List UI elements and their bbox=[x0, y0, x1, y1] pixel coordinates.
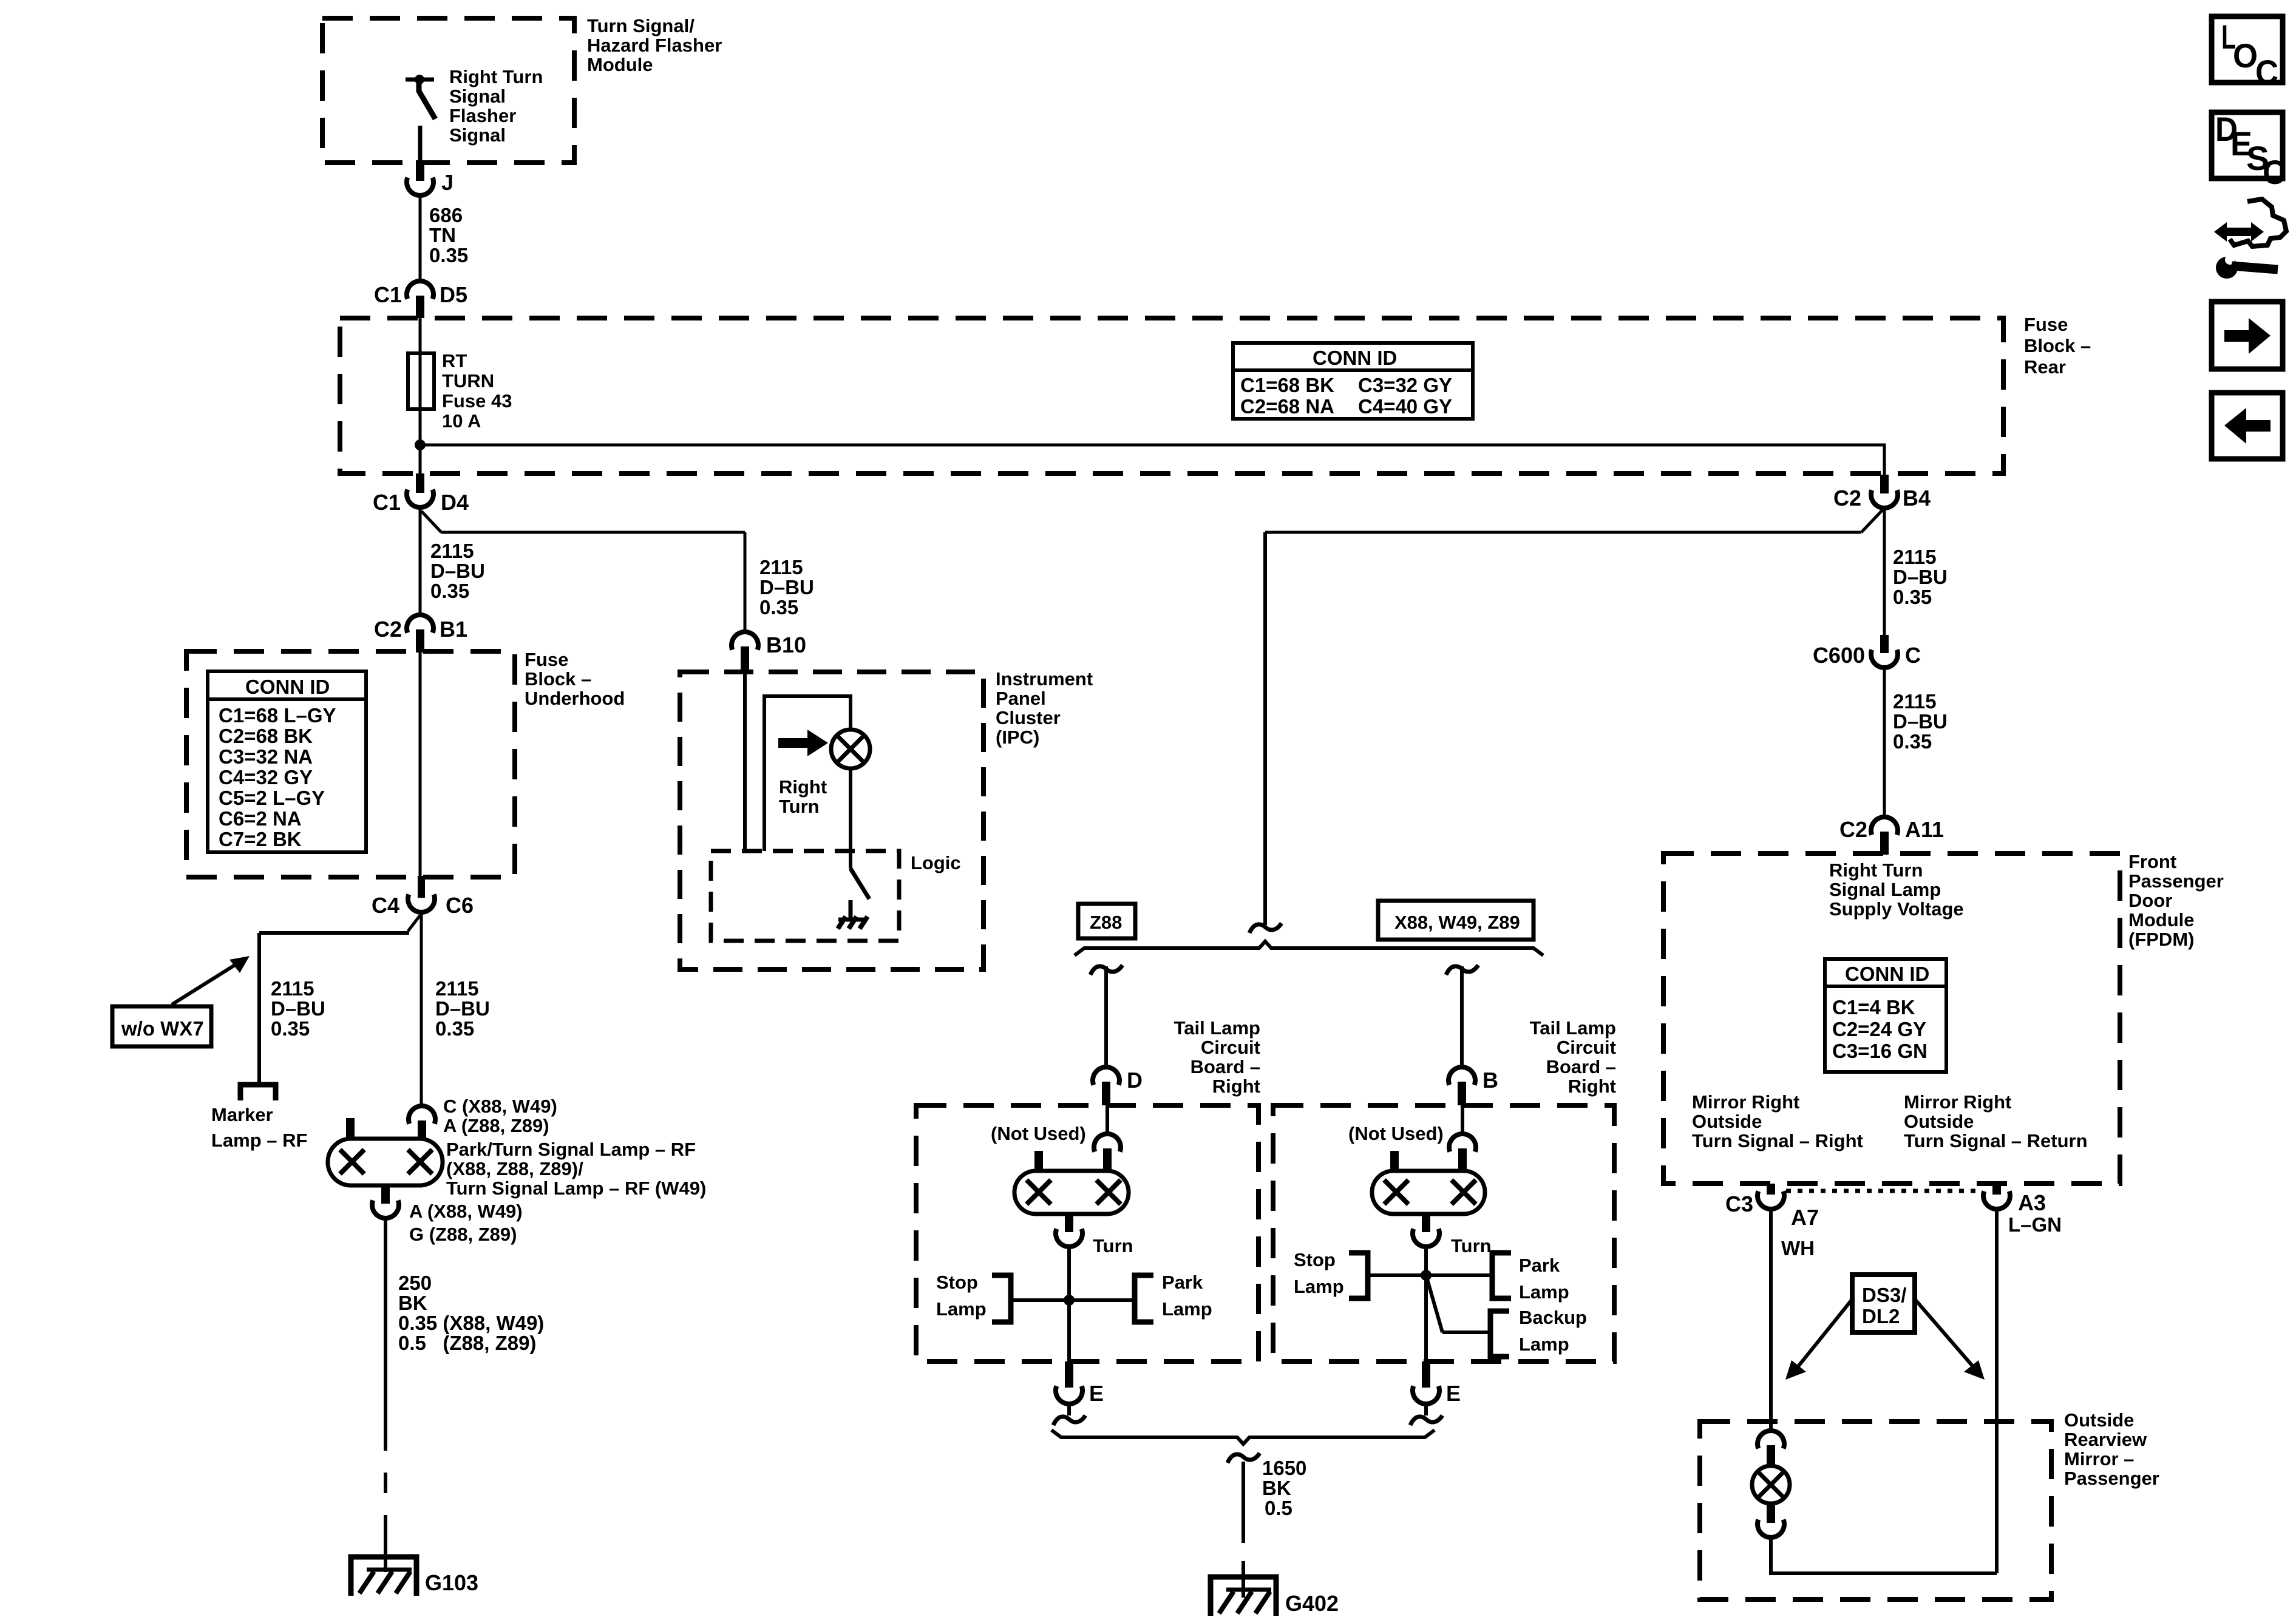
svg-text:C3=16 GN: C3=16 GN bbox=[1832, 1040, 1927, 1062]
Outside Rearview Mirror - Passenger box bbox=[1700, 1409, 2159, 1599]
DS3/DL2 callout box with arrows bbox=[1785, 1275, 1985, 1380]
wire 2115 D-BU 0.35 below C600 bbox=[1884, 668, 1948, 816]
logic chassis ground bbox=[838, 917, 868, 929]
svg-text:D–BU: D–BU bbox=[759, 576, 814, 598]
svg-text:G402: G402 bbox=[1285, 1591, 1339, 1616]
svg-text:Board –: Board – bbox=[1190, 1056, 1260, 1077]
dotted connector link A7-A3 bbox=[1786, 1189, 1982, 1193]
svg-text:686: 686 bbox=[429, 204, 463, 226]
svg-text:C4=32 GY: C4=32 GY bbox=[219, 766, 313, 788]
svg-text:C5=2 L–GY: C5=2 L–GY bbox=[219, 787, 325, 809]
icon DESC bbox=[2212, 110, 2286, 191]
svg-text:C: C bbox=[2255, 53, 2278, 91]
left board: Turn connector bbox=[1056, 1214, 1133, 1256]
svg-text:(FPDM): (FPDM) bbox=[2128, 929, 2194, 950]
svg-text:Underhood: Underhood bbox=[525, 688, 625, 709]
svg-text:Mirror Right: Mirror Right bbox=[1904, 1091, 2011, 1113]
svg-text:2115: 2115 bbox=[271, 977, 314, 1000]
svg-text:C1: C1 bbox=[373, 490, 401, 515]
svg-text:0.5: 0.5 bbox=[1265, 1497, 1292, 1519]
option split brace bbox=[1075, 941, 1543, 955]
tail lamp bus wire bbox=[1249, 532, 1282, 933]
svg-text:Signal Lamp: Signal Lamp bbox=[1829, 879, 1941, 900]
svg-text:X88, W49, Z89: X88, W49, Z89 bbox=[1394, 912, 1520, 933]
icon forward arrow bbox=[2212, 302, 2283, 369]
svg-text:(X88, Z88, Z89)/: (X88, Z88, Z89)/ bbox=[446, 1158, 583, 1179]
right board: Turn connector bbox=[1413, 1214, 1492, 1256]
Z88 option box bbox=[1078, 904, 1135, 938]
svg-text:Stop: Stop bbox=[936, 1272, 978, 1293]
left board: wire D into lamp connector bbox=[1094, 1105, 1121, 1171]
connector C2 / B1 bbox=[374, 615, 467, 653]
svg-text:250: 250 bbox=[398, 1272, 432, 1294]
svg-text:C600: C600 bbox=[1813, 643, 1865, 668]
svg-text:CONN ID: CONN ID bbox=[245, 676, 330, 698]
svg-text:1650: 1650 bbox=[1262, 1457, 1306, 1479]
wire 2115 D-BU 0.35 (right of C6) bbox=[421, 912, 490, 1105]
wire branch from D4 to IPC B10 bbox=[421, 511, 814, 632]
svg-text:Lamp: Lamp bbox=[1162, 1298, 1212, 1320]
ground G402 bbox=[1211, 1577, 1339, 1616]
ground merge brace bbox=[1051, 1430, 1435, 1444]
connector C3 / A7 bbox=[1725, 1184, 1819, 1230]
node: fuse output junction bbox=[415, 439, 426, 450]
svg-text:C6: C6 bbox=[446, 893, 474, 918]
right turn indicator arrow bbox=[778, 730, 828, 817]
svg-text:B: B bbox=[1483, 1068, 1498, 1093]
svg-text:Mirror –: Mirror – bbox=[2064, 1448, 2134, 1470]
right branch wire to B bbox=[1446, 965, 1478, 1067]
svg-text:0.35: 0.35 bbox=[271, 1017, 310, 1040]
switch: Right Turn Signal Flasher Signal bbox=[406, 66, 543, 163]
svg-text:C2=68 NA: C2=68 NA bbox=[1240, 395, 1334, 418]
svg-text:DL2: DL2 bbox=[1862, 1305, 1900, 1327]
wire 2115 D-BU 0.35 below B4 bbox=[1884, 508, 1948, 636]
svg-text:Outside: Outside bbox=[1692, 1111, 1762, 1132]
connector C600 / C bbox=[1813, 635, 1921, 668]
CONN ID table (underhood) bbox=[208, 671, 366, 852]
svg-text:B1: B1 bbox=[440, 617, 467, 642]
left board: wire to junction and E bbox=[1067, 1247, 1071, 1361]
svg-text:D4: D4 bbox=[441, 490, 469, 515]
svg-text:C1=68 L–GY: C1=68 L–GY bbox=[219, 704, 336, 727]
svg-text:Turn Signal/: Turn Signal/ bbox=[587, 15, 695, 36]
svg-text:C2=68 BK: C2=68 BK bbox=[219, 725, 313, 747]
svg-text:D–BU: D–BU bbox=[1893, 710, 1948, 733]
svg-text:0.35: 0.35 bbox=[1893, 730, 1932, 753]
w/o WX7 callout box and arrow bbox=[112, 956, 250, 1046]
svg-text:C1=68 BK: C1=68 BK bbox=[1240, 374, 1334, 396]
mirror return wire bbox=[1771, 1537, 1997, 1573]
svg-text:C: C bbox=[2263, 153, 2286, 191]
svg-text:A (X88, W49): A (X88, W49) bbox=[409, 1201, 523, 1222]
svg-text:Block –: Block – bbox=[2024, 335, 2091, 356]
right board: tail lamp bulb bbox=[1372, 1171, 1485, 1214]
wire 250 BK to ground bbox=[385, 1218, 544, 1572]
svg-text:Z88: Z88 bbox=[1090, 912, 1122, 933]
Tail Lamp Circuit Board - Right label (right) bbox=[1530, 1017, 1616, 1097]
svg-text:RT: RT bbox=[442, 350, 467, 371]
svg-text:C: C bbox=[1905, 643, 1921, 668]
connector C4 / C6 bbox=[372, 876, 474, 918]
wire into fuse bbox=[419, 318, 422, 445]
wire from junction down to D4 bbox=[419, 445, 422, 475]
right board: (Not Used) stub bbox=[1348, 1123, 1444, 1171]
svg-text:D–BU: D–BU bbox=[430, 560, 485, 582]
Tail Lamp Circuit Board box (left) bbox=[916, 1105, 1258, 1361]
svg-text:L–GN: L–GN bbox=[2008, 1213, 2062, 1236]
svg-text:Tail Lamp: Tail Lamp bbox=[1530, 1017, 1616, 1039]
Park/Turn Signal Lamp - RF (dual filament bulb) bbox=[328, 1118, 706, 1199]
svg-text:C2: C2 bbox=[374, 617, 402, 642]
connector C1 / D5 bbox=[374, 281, 467, 318]
svg-text:C3=32 NA: C3=32 NA bbox=[219, 745, 313, 768]
wire 1650 BK 0.5 to G402 bbox=[1228, 1453, 1306, 1598]
svg-text:Turn Signal – Return: Turn Signal – Return bbox=[1904, 1130, 2088, 1151]
ground G103 bbox=[351, 1557, 478, 1596]
svg-text:C3: C3 bbox=[1725, 1192, 1753, 1216]
svg-text:0.5 (Z88, Z89): 0.5 (Z88, Z89) bbox=[398, 1332, 536, 1354]
svg-text:(IPC): (IPC) bbox=[996, 727, 1039, 748]
wire to right across fuse block to B4 bbox=[420, 445, 1884, 476]
wire lamp to switch bbox=[849, 768, 852, 869]
node: Mirror Right Outside Turn Signal - Return bbox=[1904, 1091, 2088, 1151]
svg-text:Lamp: Lamp bbox=[936, 1298, 987, 1320]
connector C/A above Park-Turn lamp bbox=[409, 1096, 557, 1139]
svg-text:Rear: Rear bbox=[2024, 356, 2066, 378]
right board: wire to junction and E bbox=[1424, 1247, 1428, 1361]
svg-text:Lamp: Lamp bbox=[1519, 1334, 1569, 1355]
svg-text:0.35: 0.35 bbox=[759, 596, 798, 619]
X88, W49, Z89 option box bbox=[1378, 901, 1533, 940]
svg-text:C4=40 GY: C4=40 GY bbox=[1358, 395, 1452, 418]
mirror lamp connectors and bulb bbox=[1752, 1431, 1790, 1537]
svg-text:Turn: Turn bbox=[1451, 1235, 1492, 1256]
Fuse Block - Underhood box bbox=[186, 649, 625, 877]
left board: (Not Used) stub bbox=[991, 1123, 1086, 1171]
svg-text:Lamp: Lamp bbox=[1294, 1276, 1344, 1297]
svg-text:Signal: Signal bbox=[449, 124, 506, 146]
svg-text:Board –: Board – bbox=[1546, 1056, 1616, 1077]
svg-text:O: O bbox=[2233, 36, 2258, 75]
icon LOC bbox=[2212, 16, 2283, 91]
svg-text:Lamp: Lamp bbox=[1519, 1281, 1569, 1303]
svg-text:D5: D5 bbox=[440, 282, 467, 307]
svg-text:A3: A3 bbox=[2018, 1190, 2046, 1215]
fuse RT TURN Fuse 43 10 A bbox=[408, 350, 512, 432]
svg-text:Marker: Marker bbox=[211, 1104, 273, 1125]
svg-text:Outside: Outside bbox=[1904, 1111, 1974, 1132]
wire 686 TN 0.35 bbox=[420, 195, 468, 280]
svg-text:C2: C2 bbox=[1833, 486, 1861, 510]
Turn Signal / Hazard Flasher Module box bbox=[322, 15, 722, 163]
svg-text:TURN: TURN bbox=[442, 370, 494, 392]
svg-text:BK: BK bbox=[1262, 1477, 1291, 1499]
connector D bbox=[1093, 1067, 1143, 1105]
connector A3 bbox=[1983, 1184, 2046, 1215]
svg-text:Logic: Logic bbox=[911, 852, 961, 873]
svg-text:D: D bbox=[1127, 1068, 1143, 1093]
svg-text:Panel: Panel bbox=[996, 688, 1046, 709]
icon back arrow bbox=[2212, 393, 2283, 459]
svg-text:Park: Park bbox=[1519, 1255, 1560, 1276]
svg-text:Fuse: Fuse bbox=[525, 649, 568, 670]
svg-text:Turn Signal Lamp – RF (W49): Turn Signal Lamp – RF (W49) bbox=[446, 1178, 706, 1199]
svg-text:CONN ID: CONN ID bbox=[1845, 963, 1929, 985]
svg-text:Right: Right bbox=[1212, 1076, 1260, 1097]
svg-text:A (Z88, Z89): A (Z88, Z89) bbox=[443, 1115, 549, 1136]
svg-text:Signal: Signal bbox=[449, 86, 506, 107]
wire loop to indicator lamp bbox=[764, 696, 851, 851]
connector A/G below lamp bbox=[372, 1185, 523, 1245]
svg-text:TN: TN bbox=[429, 224, 456, 246]
svg-text:Park: Park bbox=[1162, 1272, 1203, 1293]
svg-text:Flasher: Flasher bbox=[449, 105, 516, 126]
Marker Lamp - RF terminal bbox=[211, 1085, 307, 1151]
svg-text:Turn Signal – Right: Turn Signal – Right bbox=[1692, 1130, 1863, 1151]
left board: connector E bbox=[1053, 1361, 1104, 1425]
svg-text:0.35: 0.35 bbox=[430, 580, 469, 602]
svg-text:Mirror Right: Mirror Right bbox=[1692, 1091, 1799, 1113]
svg-text:C6=2 NA: C6=2 NA bbox=[219, 807, 302, 830]
svg-text:Turn: Turn bbox=[1093, 1235, 1133, 1256]
left board: tail lamp bulb bbox=[1014, 1171, 1129, 1214]
left branch wire to D bbox=[1090, 965, 1123, 1067]
svg-text:DS3/: DS3/ bbox=[1862, 1284, 1906, 1306]
wire branch to Marker Lamp bbox=[259, 915, 420, 1083]
right board: wire B into lamp connector bbox=[1449, 1105, 1476, 1171]
svg-text:2115: 2115 bbox=[759, 556, 803, 578]
svg-text:2115: 2115 bbox=[430, 540, 474, 562]
right board: stop/park cross bbox=[1294, 1249, 1569, 1303]
svg-text:C7=2 BK: C7=2 BK bbox=[219, 828, 302, 850]
svg-text:Right: Right bbox=[779, 776, 827, 798]
logic switch bbox=[851, 869, 869, 918]
Fuse Block - Rear box bbox=[340, 314, 2091, 473]
Front Passenger Door Module (FPDM) box bbox=[1663, 851, 2224, 1184]
svg-text:D–BU: D–BU bbox=[1893, 566, 1948, 588]
connector C1 / D4 bbox=[373, 473, 469, 515]
svg-text:G103: G103 bbox=[425, 1570, 478, 1595]
node: Right Turn Signal Lamp Supply Voltage bbox=[1829, 859, 1964, 920]
svg-text:Block –: Block – bbox=[525, 668, 591, 690]
connector B bbox=[1449, 1067, 1498, 1105]
connector C2 / A11 bbox=[1839, 817, 1944, 855]
svg-text:Front: Front bbox=[2128, 851, 2176, 872]
svg-text:Passenger: Passenger bbox=[2064, 1468, 2159, 1489]
svg-text:C2=24 GY: C2=24 GY bbox=[1832, 1018, 1926, 1040]
svg-text:Cluster: Cluster bbox=[996, 707, 1061, 728]
svg-text:Park/Turn Signal Lamp – RF: Park/Turn Signal Lamp – RF bbox=[446, 1139, 696, 1160]
svg-text:Module: Module bbox=[587, 54, 653, 75]
svg-text:0.35: 0.35 bbox=[1893, 586, 1932, 608]
svg-text:2115: 2115 bbox=[1893, 690, 1937, 713]
node: Mirror Right Outside Turn Signal - Right bbox=[1692, 1091, 1863, 1151]
connector J bbox=[407, 160, 453, 195]
wire WH bbox=[1771, 1209, 1815, 1429]
svg-text:Fuse 43: Fuse 43 bbox=[442, 390, 512, 412]
svg-text:D–BU: D–BU bbox=[271, 997, 325, 1020]
icon vehicle with wrench bbox=[2214, 199, 2286, 279]
svg-text:2115: 2115 bbox=[1893, 546, 1937, 568]
svg-text:A11: A11 bbox=[1905, 817, 1944, 842]
Logic box bbox=[711, 851, 961, 941]
right board: backup lamp branch bbox=[1426, 1275, 1587, 1357]
svg-text:Supply Voltage: Supply Voltage bbox=[1829, 898, 1964, 920]
svg-text:C (X88, W49): C (X88, W49) bbox=[443, 1096, 557, 1117]
svg-text:Tail Lamp: Tail Lamp bbox=[1174, 1017, 1260, 1039]
svg-text:J: J bbox=[441, 170, 453, 195]
wire branch from B4 to tail-lamp bus bbox=[1265, 509, 1883, 532]
svg-text:Stop: Stop bbox=[1294, 1249, 1336, 1270]
svg-text:Lamp – RF: Lamp – RF bbox=[211, 1130, 307, 1151]
svg-text:Backup: Backup bbox=[1519, 1307, 1587, 1328]
svg-text:WH: WH bbox=[1781, 1237, 1815, 1259]
left board: stop/park cross bbox=[936, 1272, 1212, 1322]
svg-text:Outside: Outside bbox=[2064, 1409, 2134, 1431]
svg-text:A7: A7 bbox=[1791, 1205, 1819, 1230]
svg-text:Hazard Flasher: Hazard Flasher bbox=[587, 35, 722, 56]
svg-text:C2: C2 bbox=[1839, 817, 1867, 842]
wire L-GN bbox=[1997, 1209, 2062, 1573]
svg-text:CONN ID: CONN ID bbox=[1313, 347, 1397, 369]
svg-text:C1: C1 bbox=[374, 282, 402, 307]
svg-text:B4: B4 bbox=[1903, 486, 1931, 510]
Tail Lamp Circuit Board - Right label (left) bbox=[1174, 1017, 1260, 1097]
svg-text:BK: BK bbox=[398, 1292, 427, 1314]
connector C2 / B4 bbox=[1833, 475, 1931, 510]
svg-text:Passenger: Passenger bbox=[2128, 870, 2224, 892]
svg-text:Right: Right bbox=[1568, 1076, 1616, 1097]
svg-text:Right Turn: Right Turn bbox=[1829, 859, 1923, 881]
svg-text:Turn: Turn bbox=[779, 796, 820, 817]
svg-text:Right Turn: Right Turn bbox=[449, 66, 543, 87]
connector B10 bbox=[732, 632, 806, 674]
svg-text:Module: Module bbox=[2128, 909, 2195, 931]
svg-text:C1=4 BK: C1=4 BK bbox=[1832, 996, 1915, 1019]
svg-text:Circuit: Circuit bbox=[1557, 1037, 1616, 1058]
svg-text:Instrument: Instrument bbox=[996, 668, 1093, 690]
svg-text:Circuit: Circuit bbox=[1201, 1037, 1260, 1058]
svg-text:0.35: 0.35 bbox=[429, 244, 468, 266]
svg-text:E: E bbox=[1089, 1381, 1104, 1406]
svg-text:C4: C4 bbox=[372, 893, 399, 918]
wire through underhood box bbox=[419, 653, 422, 877]
svg-text:B10: B10 bbox=[766, 632, 806, 657]
svg-text:2115: 2115 bbox=[435, 977, 479, 1000]
svg-text:(Not Used): (Not Used) bbox=[991, 1123, 1086, 1144]
Tail Lamp Circuit Board box (right) bbox=[1273, 1105, 1614, 1361]
svg-text:0.35 (X88, W49): 0.35 (X88, W49) bbox=[398, 1312, 544, 1334]
svg-text:D–BU: D–BU bbox=[435, 997, 490, 1020]
Instrument Panel Cluster (IPC) box bbox=[680, 668, 1093, 969]
right board: connector E bbox=[1410, 1361, 1461, 1425]
svg-text:Door: Door bbox=[2128, 890, 2172, 911]
svg-text:10 A: 10 A bbox=[442, 410, 481, 432]
CONN ID table (FPDM) bbox=[1825, 959, 1946, 1072]
svg-text:E: E bbox=[1446, 1381, 1461, 1406]
svg-text:C3=32 GY: C3=32 GY bbox=[1358, 374, 1452, 396]
IPC indicator lamp bbox=[831, 730, 870, 768]
wire B10 to logic bbox=[743, 674, 747, 851]
svg-text:G (Z88, Z89): G (Z88, Z89) bbox=[409, 1224, 517, 1245]
svg-text:Rearview: Rearview bbox=[2064, 1429, 2147, 1450]
CONN ID table (fuse block rear) bbox=[1233, 343, 1473, 419]
wire 2115 D-BU 0.35 on left main below D4 bbox=[420, 509, 485, 615]
svg-text:(Not Used): (Not Used) bbox=[1348, 1123, 1444, 1144]
svg-text:Fuse: Fuse bbox=[2024, 314, 2068, 335]
svg-text:w/o WX7: w/o WX7 bbox=[121, 1017, 204, 1040]
svg-text:0.35: 0.35 bbox=[435, 1017, 474, 1040]
